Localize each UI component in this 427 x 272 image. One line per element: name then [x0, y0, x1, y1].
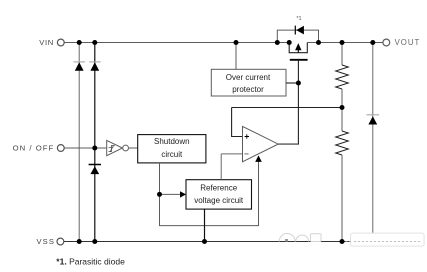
svg-text:VSS: VSS — [37, 237, 56, 246]
svg-text:protector: protector — [232, 85, 264, 94]
svg-text:Shutdown: Shutdown — [154, 137, 190, 146]
svg-text:VOUT: VOUT — [395, 38, 421, 47]
svg-text:*1: *1 — [296, 16, 301, 22]
svg-text:*1. Parasitic diode: *1. Parasitic diode — [56, 257, 125, 267]
svg-text:circuit: circuit — [161, 150, 183, 159]
svg-text:VIN: VIN — [39, 38, 54, 47]
svg-text:voltage circuit: voltage circuit — [194, 196, 244, 205]
svg-text:ON / OFF: ON / OFF — [13, 144, 55, 153]
svg-text:Over current: Over current — [226, 73, 271, 82]
svg-text:Reference: Reference — [200, 184, 237, 193]
